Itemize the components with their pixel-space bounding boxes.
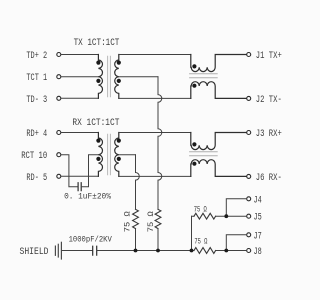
- pin RD- 5: [26, 173, 60, 184]
- transformer T2 primary dot top: [96, 139, 100, 143]
- choke L2 bottom winding: [191, 160, 247, 177]
- svg-text:RD- 5: RD- 5: [26, 173, 47, 184]
- wire R3 to shield bus: [191, 216, 193, 250]
- wire C1 to T2 center tap: [81, 155, 98, 187]
- svg-text:J1 TX+: J1 TX+: [256, 51, 282, 62]
- pin TD+ 2: [26, 51, 60, 62]
- choke L1 bottom dot: [192, 84, 196, 88]
- svg-text:TD+ 2: TD+ 2: [26, 51, 47, 62]
- wire RD+ to T2: [61, 132, 98, 134]
- pin J7: [247, 231, 262, 242]
- pin J1 TX+: [247, 51, 282, 62]
- pin J5: [247, 213, 262, 224]
- svg-text:J3 RX+: J3 RX+: [256, 129, 282, 140]
- wire J4 branch: [226, 199, 246, 216]
- pin J8: [247, 247, 262, 258]
- resistor R3 75ohm horizontal: [194, 213, 216, 219]
- svg-text:J5: J5: [254, 213, 262, 224]
- choke L2 core: [190, 152, 218, 156]
- junction node J4-J5: [224, 214, 228, 218]
- transformer T2 core: [108, 134, 111, 175]
- choke L2 top dot: [192, 142, 196, 146]
- pin RD+ 4: [26, 129, 60, 140]
- wire J7 branch: [226, 235, 246, 251]
- svg-text:75 Ω: 75 Ω: [146, 211, 156, 232]
- svg-text:1000pF/2KV: 1000pF/2KV: [69, 235, 112, 245]
- choke L1 top dot: [192, 64, 196, 68]
- wire R2 to shield bus: [157, 229, 159, 251]
- transformer T1 secondary dot bottom: [117, 79, 121, 83]
- pin TCT 1: [26, 73, 60, 84]
- junction node J7/shield bus: [224, 249, 228, 253]
- wire TD- to T1: [61, 97, 98, 99]
- svg-text:0. 1uF±20%: 0. 1uF±20%: [64, 192, 112, 202]
- pin J3 RX+: [247, 129, 282, 140]
- wire TCT to T1 center tap: [61, 76, 98, 78]
- svg-text:75 Ω: 75 Ω: [194, 204, 207, 214]
- resistor R1 75ohm vertical: [133, 209, 139, 228]
- wire T1 secondary top to choke L1: [119, 54, 191, 56]
- pin J6 RX-: [247, 173, 282, 184]
- choke L1 bottom winding: [191, 82, 247, 99]
- wire shield to capacitor C2: [62, 250, 93, 252]
- wire RX center tap vertical with hop to resistor R1: [136, 155, 140, 210]
- svg-text:RCT 10: RCT 10: [21, 151, 47, 162]
- capacitor C2 plates: [93, 246, 97, 255]
- wire shield bus: [97, 250, 194, 252]
- wire TD+ to T1: [61, 54, 98, 56]
- choke L1 top winding: [191, 55, 247, 72]
- transformer T1 secondary winding: [115, 55, 119, 99]
- capacitor C1 plates: [78, 183, 81, 191]
- transformer T1 primary winding: [98, 55, 102, 99]
- resistor R2 75ohm vertical: [155, 209, 161, 228]
- svg-text:RX 1CT:1CT: RX 1CT:1CT: [72, 118, 119, 129]
- pin J4: [247, 195, 262, 206]
- wire R1 to shield bus: [135, 229, 137, 251]
- svg-text:J6 RX-: J6 RX-: [256, 173, 282, 184]
- junction node R3/shield bus: [190, 249, 194, 253]
- wire RD- to T2: [61, 175, 98, 177]
- svg-text:75 Ω: 75 Ω: [122, 211, 132, 232]
- svg-text:J8: J8: [254, 247, 262, 258]
- transformer T1 primary dot bottom: [96, 79, 100, 83]
- wire T2 secondary top to choke L2: [119, 132, 191, 134]
- wire RCT to capacitor C1: [61, 155, 78, 187]
- svg-text:75 Ω: 75 Ω: [194, 237, 207, 247]
- svg-text:TCT 1: TCT 1: [26, 73, 47, 84]
- transformer T1 core: [108, 56, 111, 97]
- transformer T2 primary dot bottom: [96, 157, 100, 161]
- wire T1 secondary bottom to choke L1: [119, 97, 191, 99]
- svg-text:RD+ 4: RD+ 4: [26, 129, 47, 140]
- wire R4 to J8: [216, 250, 247, 252]
- junction node R1/shield bus: [134, 249, 138, 253]
- resistor R4 75ohm horizontal: [194, 248, 216, 254]
- svg-text:SHIELD: SHIELD: [20, 247, 49, 258]
- choke L2 top winding: [191, 133, 247, 150]
- junction node R2/shield bus: [156, 249, 160, 253]
- svg-text:TD- 3: TD- 3: [26, 95, 47, 106]
- wire T2 secondary center tap to node: [119, 154, 136, 156]
- wire T1 secondary center tap to node: [119, 76, 158, 78]
- wire TX center tap vertical with hops to resistor R2: [158, 77, 162, 210]
- svg-text:J7: J7: [254, 231, 262, 242]
- pin J2 TX-: [247, 95, 282, 106]
- svg-text:TX 1CT:1CT: TX 1CT:1CT: [74, 38, 120, 49]
- choke L2 bottom dot: [192, 162, 196, 166]
- wire T2 secondary bottom to choke L2: [119, 175, 191, 177]
- transformer T1 secondary dot top: [117, 61, 121, 65]
- svg-text:J2 TX-: J2 TX-: [256, 95, 282, 106]
- pin RCT 10: [21, 151, 61, 162]
- shield symbol bars: [54, 246, 56, 255]
- transformer T1 primary dot top: [96, 61, 100, 65]
- transformer T2 secondary winding: [115, 133, 119, 177]
- transformer T2 primary winding: [98, 133, 102, 177]
- transformer T2 secondary dot top: [117, 139, 121, 143]
- wire J5 line: [192, 215, 247, 217]
- choke L1 core: [190, 74, 218, 78]
- svg-text:J4: J4: [254, 195, 262, 206]
- pin TD- 3: [26, 95, 60, 106]
- transformer T2 secondary dot bottom: [117, 157, 121, 161]
